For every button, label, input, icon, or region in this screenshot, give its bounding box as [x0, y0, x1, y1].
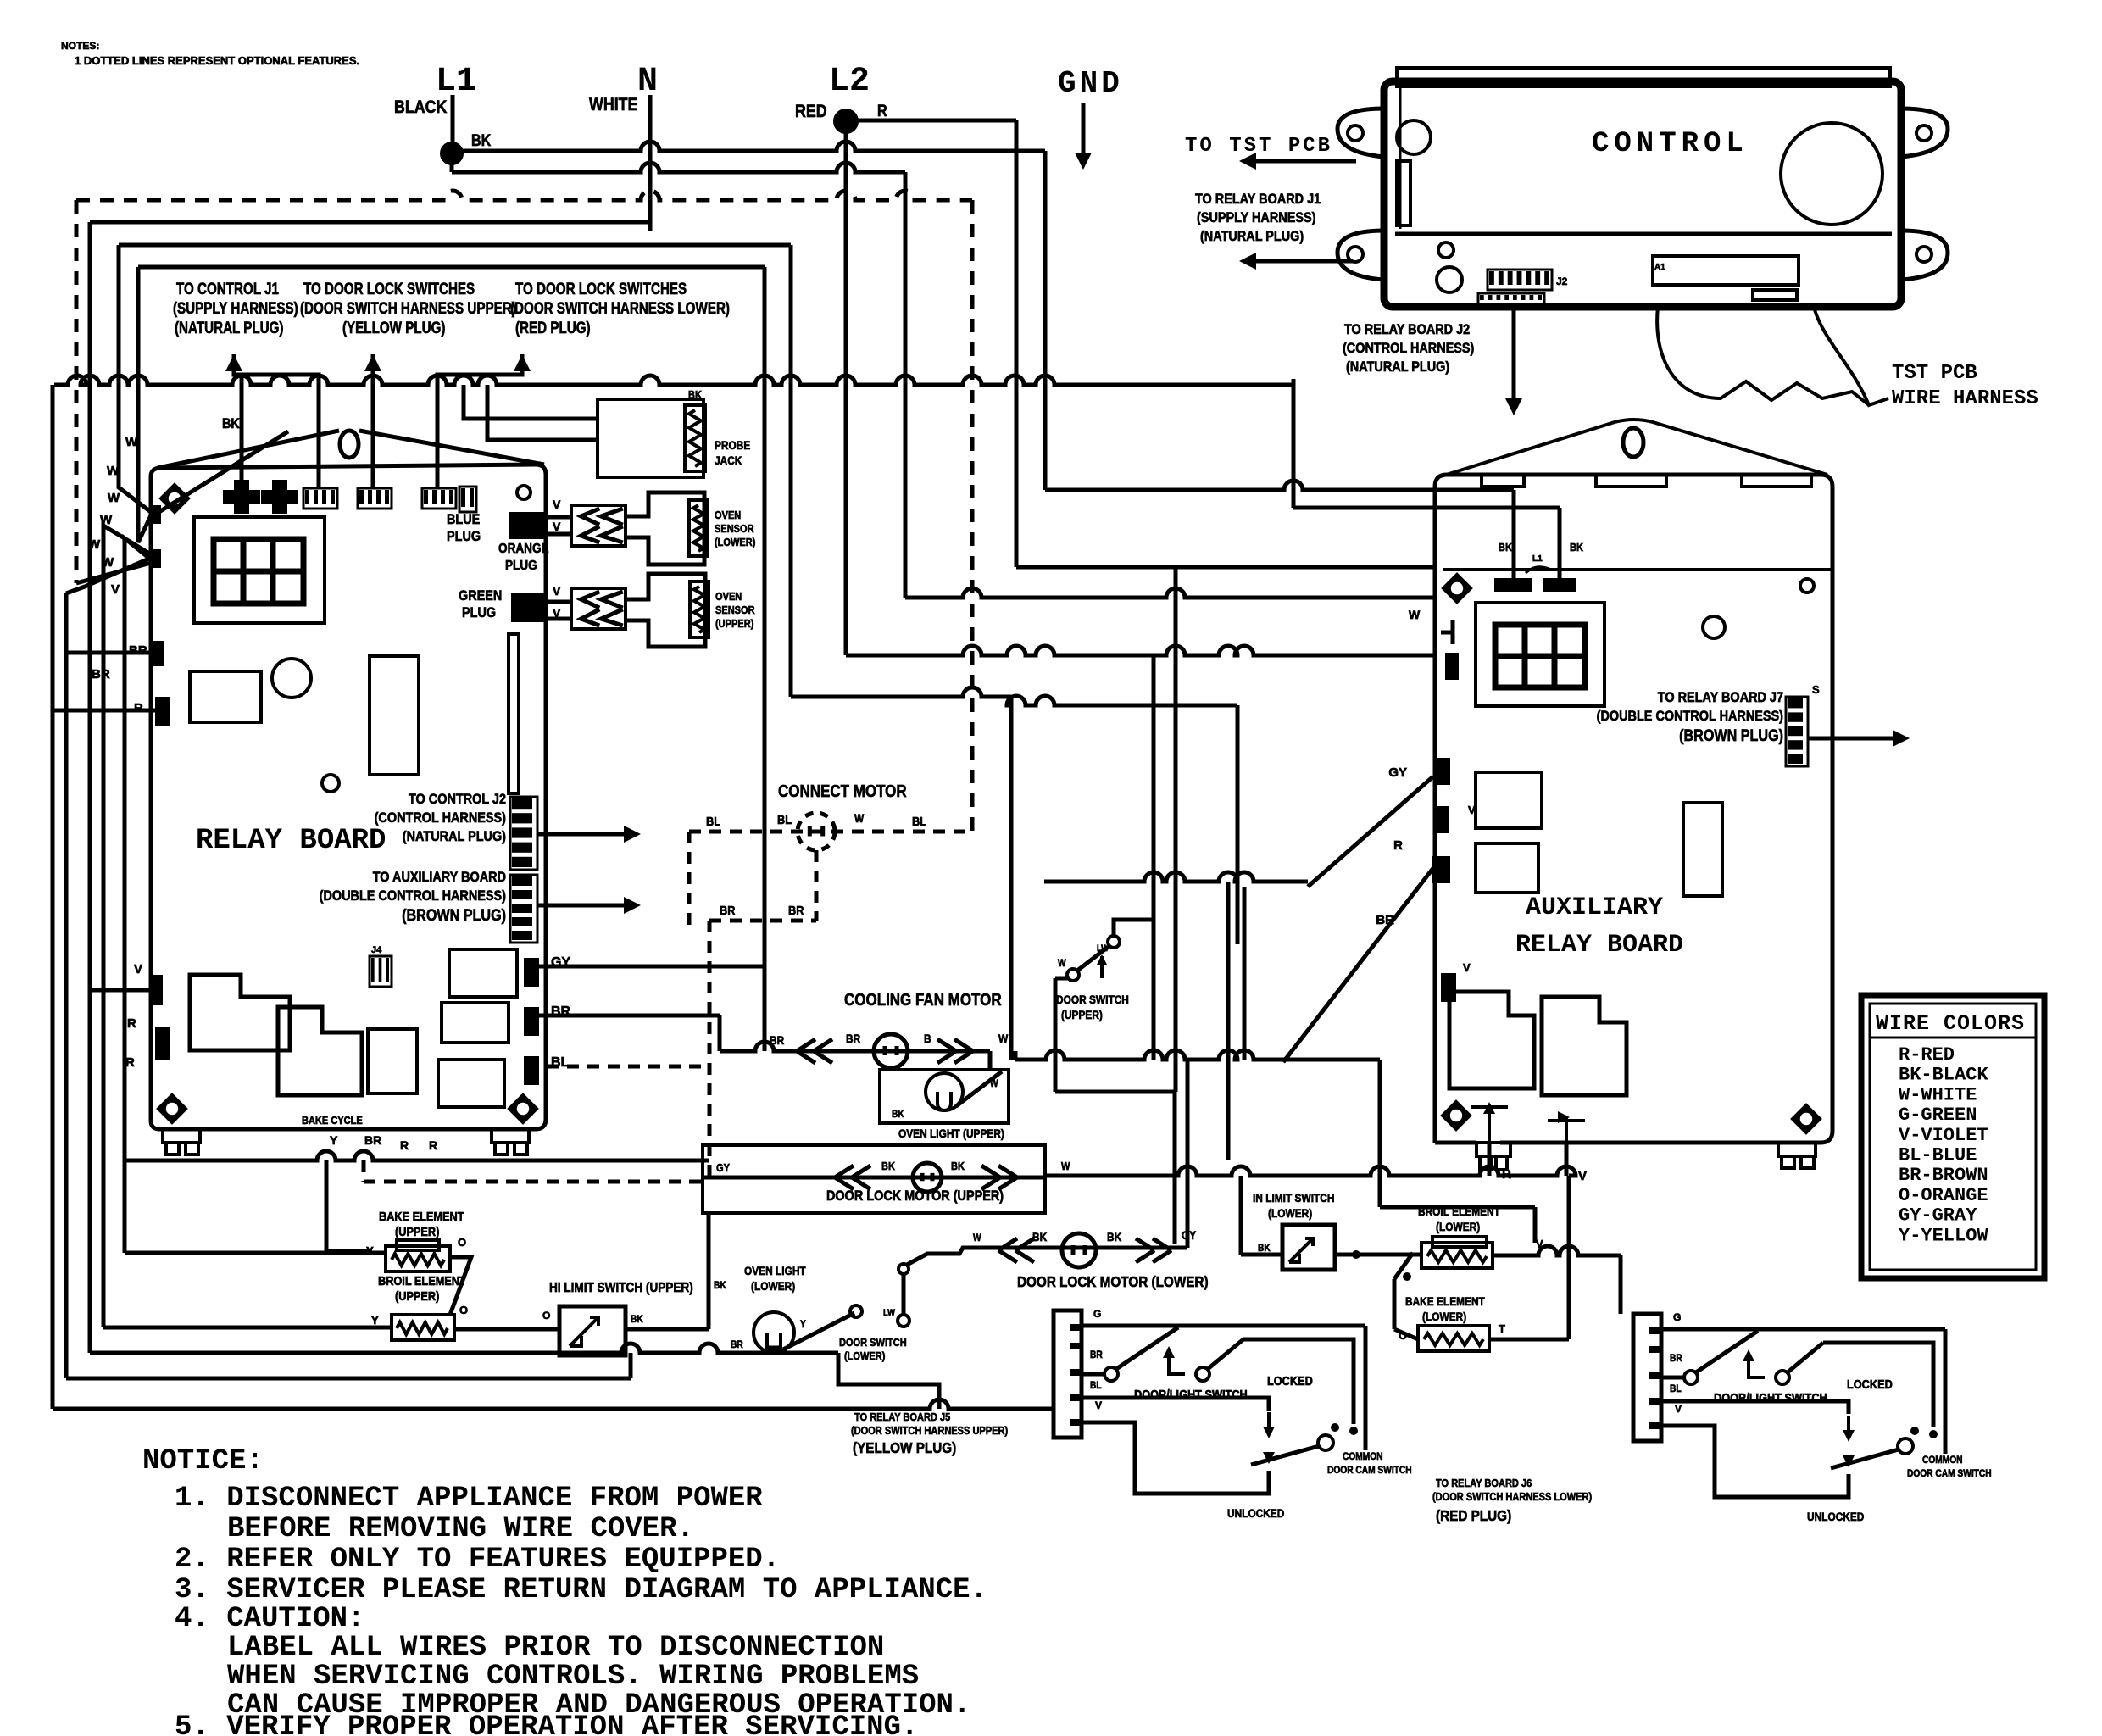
arrow J1 line	[1246, 259, 1353, 264]
left switch group pin	[1070, 1419, 1082, 1426]
arrow tst line	[1246, 159, 1356, 164]
bus y1040	[1044, 872, 1308, 882]
node L1 dot	[442, 143, 462, 164]
conn blue plug	[509, 512, 544, 539]
broil lower cap	[1432, 1237, 1487, 1247]
svg-text:(CONTROL HARNESS): (CONTROL HARNESS)	[1343, 341, 1474, 356]
conn V pad	[149, 975, 163, 1005]
wire x1912 drop	[1619, 1255, 1623, 1314]
right switch group wire top	[1661, 1327, 1945, 1332]
dlm upper arrows left	[835, 1166, 870, 1189]
bake element upper body	[386, 1246, 450, 1271]
GND lead	[1082, 103, 1086, 163]
aux corner bottom-left	[1435, 1141, 1476, 1145]
aux conn mid	[1433, 806, 1449, 833]
junction x744	[629, 1353, 633, 1378]
oven light upper filament	[937, 1092, 951, 1110]
svg-text:BK: BK	[1107, 1230, 1122, 1244]
conn W pads left	[149, 505, 161, 568]
svg-text:PLUG: PLUG	[505, 559, 537, 573]
wire R from L2 dot	[857, 119, 1016, 123]
dashed drop left	[687, 832, 692, 932]
bake upper cap	[397, 1240, 439, 1250]
arrow ctrl J2 head	[1505, 398, 1522, 415]
svg-text:(DOOR SWITCH HARNESS LOWER): (DOOR SWITCH HARNESS LOWER)	[1432, 1490, 1592, 1503]
probe jack resistor box	[685, 405, 705, 471]
right switch group down arrow	[1843, 1430, 1855, 1442]
cooling fan wire	[720, 1042, 990, 1051]
wire vertical x1449	[1226, 882, 1231, 1160]
svg-text:1. DISCONNECT APPLIANCE FROM P: 1. DISCONNECT APPLIANCE FROM POWER	[175, 1483, 763, 1515]
board trace bar	[509, 634, 519, 793]
left switch group pin	[1070, 1343, 1082, 1349]
broil element lower zigzag	[1427, 1250, 1487, 1262]
svg-text:BK: BK	[471, 131, 492, 150]
wire to hi-limit lower	[1241, 1253, 1282, 1257]
wire y669 to aux	[1016, 565, 1435, 570]
svg-text:BLUE: BLUE	[447, 512, 480, 527]
relay board outline	[151, 465, 546, 1129]
control ear bottom-left	[1337, 231, 1384, 280]
dashed stub x429	[362, 1160, 366, 1182]
aux hinge tab 1	[1482, 475, 1524, 487]
svg-text:(DOUBLE CONTROL HARNESS): (DOUBLE CONTROL HARNESS)	[320, 888, 506, 904]
wire vertical x1628	[1378, 1060, 1382, 1207]
svg-text:BK: BK	[688, 388, 702, 401]
aux hinge tab 2	[1596, 475, 1666, 487]
left switch group cam blade	[1251, 1446, 1319, 1465]
svg-text:W-WHITE: W-WHITE	[1899, 1084, 1977, 1105]
ear hole bottom-left	[1348, 247, 1363, 262]
svg-text:(UPPER): (UPPER)	[1061, 1008, 1103, 1021]
aux rect 1	[1476, 772, 1542, 828]
svg-text:L1: L1	[1532, 554, 1543, 564]
svg-text:HI LIMIT SWITCH (UPPER): HI LIMIT SWITCH (UPPER)	[549, 1281, 693, 1295]
arrow red plug	[514, 354, 531, 371]
right switch group up arrow	[1749, 1353, 1765, 1377]
dashed vertical x837	[708, 921, 712, 1182]
svg-text:TO AUXILIARY BOARD: TO AUXILIARY BOARD	[373, 870, 506, 885]
svg-text:TO RELAY BOARD J6: TO RELAY BOARD J6	[1436, 1477, 1532, 1489]
svg-text:V: V	[1095, 1399, 1102, 1411]
tst harness wave 1	[1657, 307, 1869, 405]
conn J4	[370, 956, 392, 987]
wire x385 to bake	[325, 1160, 329, 1251]
svg-text:V: V	[1463, 961, 1471, 974]
svg-text:(BROWN PLUG): (BROWN PLUG)	[1679, 726, 1783, 745]
aux BK pad 1	[1494, 578, 1532, 592]
control display window	[1653, 256, 1799, 285]
svg-text:RELAY BOARD: RELAY BOARD	[1515, 931, 1683, 960]
wire to probe jack 1	[464, 385, 598, 419]
aux foot wire V	[1565, 1143, 1569, 1176]
svg-text:3. SERVICER PLEASE RETURN DIAG: 3. SERVICER PLEASE RETURN DIAGRAM TO APP…	[175, 1574, 987, 1606]
bottom bus y1662	[53, 1399, 1055, 1409]
stub join	[1014, 1051, 1018, 1060]
aux relay block 2	[1542, 997, 1627, 1095]
wire vertical x1401	[1186, 1060, 1190, 1248]
left switch group down arrow line	[1267, 1412, 1271, 1427]
svg-text:GY-GRAY: GY-GRAY	[1899, 1205, 1977, 1227]
svg-text:LOCKED: LOCKED	[1847, 1377, 1893, 1391]
right switch group dot	[1929, 1430, 1938, 1438]
wire L1 lead	[451, 95, 455, 142]
svg-text:PLUG: PLUG	[447, 529, 481, 544]
left switch group down arrow 2	[1263, 1452, 1275, 1464]
svg-text:DOOR CAM SWITCH: DOOR CAM SWITCH	[1327, 1465, 1412, 1476]
left switch group bottom loop	[1082, 1422, 1269, 1494]
svg-text:V-VIOLET: V-VIOLET	[1899, 1125, 1988, 1146]
svg-text:DOOR SWITCH: DOOR SWITCH	[839, 1336, 907, 1349]
broil element lower body	[1421, 1243, 1493, 1268]
wire vertical x1387	[1174, 567, 1178, 1092]
svg-text:V: V	[553, 498, 561, 511]
fan wire drop	[988, 1051, 993, 1070]
bus y1387 right	[1045, 1166, 1576, 1176]
dsu wire right	[1114, 920, 1154, 936]
wire L1 dot drop	[450, 153, 454, 172]
svg-text:TO RELAY BOARD J5: TO RELAY BOARD J5	[854, 1410, 951, 1423]
door switch lower terminal 1	[850, 1305, 862, 1317]
svg-text:B: B	[924, 1032, 931, 1045]
arrow line aux	[537, 904, 632, 908]
svg-text:O: O	[459, 1304, 468, 1316]
svg-text:BL: BL	[1090, 1380, 1102, 1391]
wire BK to aux pad1	[1045, 481, 1514, 490]
dashed optional left	[75, 200, 79, 583]
svg-text:BK: BK	[881, 1160, 895, 1172]
dashed BR wire	[709, 919, 816, 923]
broil-bake diag	[1394, 1253, 1413, 1279]
svg-text:TO CONTROL J2: TO CONTROL J2	[409, 792, 506, 807]
aux diag wire R	[1283, 868, 1433, 1062]
cooling fan motor	[874, 1034, 908, 1068]
wire R vertical x1199	[1015, 120, 1019, 567]
dlm upper arrows right	[981, 1166, 1017, 1189]
svg-text:BR-BROWN: BR-BROWN	[1899, 1165, 1988, 1186]
right switch group blade 2	[1788, 1343, 1823, 1372]
aux L1 arc	[1526, 567, 1551, 573]
aux conn R	[1432, 856, 1450, 883]
relay board foot left	[163, 1129, 200, 1155]
left switch group cam terminal	[1318, 1435, 1333, 1450]
svg-text:RED: RED	[795, 102, 827, 122]
broil lower right stub	[1493, 1254, 1526, 1258]
relay module grid	[214, 539, 303, 604]
door switch upper arrow	[1100, 956, 1104, 978]
control slot	[1397, 161, 1410, 225]
svg-text:GY: GY	[1388, 765, 1407, 780]
aux mounting oval	[1623, 428, 1643, 457]
relay board tent right	[359, 431, 544, 465]
conn J2 relay	[510, 797, 537, 870]
bus drop x1526	[1292, 379, 1296, 508]
control box outline	[1384, 81, 1901, 307]
wire L2 vertical x998	[844, 121, 848, 655]
control ear top-right	[1901, 108, 1948, 157]
svg-text:G: G	[1673, 1311, 1681, 1323]
svg-text:BL-BLUE: BL-BLUE	[1899, 1145, 1977, 1166]
wire BK drop	[240, 375, 244, 488]
svg-text:BK: BK	[1032, 1230, 1048, 1244]
green plug chevrons	[571, 588, 626, 629]
oven sensor lower zigzag	[693, 505, 703, 551]
door switch lower terminal 2	[898, 1315, 909, 1327]
bottom bus y1369	[125, 1151, 709, 1160]
left switch group right vertical	[1364, 1326, 1368, 1450]
aux hinge tab 3	[1742, 475, 1811, 487]
svg-text:AUXILIARY: AUXILIARY	[1526, 893, 1663, 922]
svg-text:R: R	[125, 1055, 135, 1070]
svg-text:R: R	[1393, 838, 1403, 853]
wire vertical x1361	[1152, 655, 1156, 1060]
arrow2 stem	[371, 354, 375, 488]
svg-text:COMMON: COMMON	[1922, 1455, 1963, 1466]
wire colors title bg	[1870, 1004, 2036, 1038]
aux diag wire GY	[1308, 776, 1433, 887]
wire broil lower to right group	[1526, 1246, 1621, 1255]
aux screw bottom-right	[1793, 1105, 1820, 1132]
svg-text:TO RELAY BOARD J1: TO RELAY BOARD J1	[1195, 192, 1321, 207]
aux relay block 1	[1449, 992, 1534, 1088]
screw bottom-left relay board	[158, 1095, 186, 1122]
svg-text:CONTROL: CONTROL	[1592, 128, 1749, 160]
svg-text:GND: GND	[1058, 66, 1123, 101]
fan arrows right	[937, 1039, 973, 1063]
aux W connector	[1451, 620, 1455, 644]
svg-text:SENSOR: SENSOR	[715, 522, 754, 535]
wire vertical x1468	[1243, 887, 1247, 1060]
door lock motor lower	[1062, 1233, 1096, 1267]
wire green-chevron 1	[547, 600, 571, 604]
svg-text:(UPPER): (UPPER)	[715, 617, 753, 630]
wire N vertical	[648, 95, 653, 231]
wire W to aux board	[905, 588, 1435, 598]
svg-text:DOOR SWITCH: DOOR SWITCH	[1056, 993, 1129, 1006]
door switch lower blade	[783, 1313, 854, 1349]
dsu stub left	[1055, 976, 1070, 981]
svg-text:TO CONTROL J1: TO CONTROL J1	[176, 279, 279, 298]
tst harness wave 2	[1814, 307, 1888, 405]
svg-text:W: W	[854, 811, 865, 825]
broil element upper zigzag	[397, 1322, 448, 1334]
svg-text:V: V	[134, 962, 142, 976]
right switch group cam terminal	[1898, 1438, 1913, 1454]
wire BR drop	[718, 1015, 722, 1051]
svg-text:Y: Y	[800, 1319, 806, 1330]
svg-text:BL: BL	[777, 812, 792, 826]
wire blue-chevron 1	[544, 515, 571, 520]
aux conn J7	[1786, 697, 1808, 766]
svg-text:BR: BR	[788, 903, 804, 917]
svg-text:WIRE HARNESS: WIRE HARNESS	[1892, 387, 2038, 410]
svg-text:DOOR CAM SWITCH: DOOR CAM SWITCH	[1907, 1468, 1992, 1479]
wire hi-limit lower to broil	[1335, 1253, 1421, 1257]
wire hi-limit right	[626, 1327, 709, 1332]
ear hole top-right	[1916, 125, 1932, 141]
svg-text:(LOWER): (LOWER)	[1436, 1220, 1480, 1233]
board hole small	[322, 775, 339, 792]
svg-text:T: T	[1499, 1322, 1505, 1335]
left switch group wire mid	[1082, 1372, 1104, 1377]
aux foot right	[1778, 1143, 1816, 1168]
hi limit lower symbol	[1289, 1238, 1313, 1262]
bake upper feed	[125, 1251, 386, 1255]
svg-text:BR: BR	[364, 1133, 381, 1147]
svg-text:BK: BK	[714, 1280, 726, 1291]
fan arrows left	[797, 1039, 832, 1063]
wire blue-chevron 2	[544, 532, 571, 537]
aux module grid	[1495, 625, 1585, 687]
svg-text:Y: Y	[330, 1133, 338, 1147]
door switch upper terminal 2	[1108, 936, 1120, 948]
wire drop to aux pad2	[1558, 508, 1562, 578]
door switch upper terminal 1	[1067, 969, 1079, 981]
svg-text:TO RELAY BOARD J2: TO RELAY BOARD J2	[1344, 322, 1470, 337]
wire R to x62	[53, 709, 155, 713]
bake element upper zigzag	[392, 1254, 444, 1266]
svg-text:(DOOR SWITCH HARNESS UPPER): (DOOR SWITCH HARNESS UPPER)	[300, 298, 516, 317]
door lock motor upper enclosure	[703, 1145, 1045, 1213]
left switch group cam dot	[1331, 1423, 1339, 1432]
svg-text:V: V	[1578, 1169, 1587, 1183]
wire to door lock lower	[1055, 1092, 1175, 1244]
svg-text:Y: Y	[371, 1314, 379, 1327]
wire vertical x1851	[1567, 1176, 1571, 1339]
svg-text:L2: L2	[829, 63, 870, 101]
svg-text:(DOUBLE CONTROL HARNESS): (DOUBLE CONTROL HARNESS)	[1597, 709, 1783, 724]
relay block 4	[449, 949, 517, 997]
svg-text:BROIL ELEMENT: BROIL ELEMENT	[378, 1273, 466, 1288]
wire W fan 5 to dashed	[76, 563, 151, 583]
aux test point 2	[1548, 1116, 1585, 1143]
svg-text:BAKE CYCLE: BAKE CYCLE	[302, 1114, 363, 1127]
aux module frame	[1476, 603, 1604, 706]
broil element upper body	[392, 1315, 454, 1340]
right switch group connector strip	[1633, 1314, 1661, 1441]
left switch group terminal 1	[1104, 1367, 1118, 1381]
left switch group terminal 2	[1196, 1367, 1209, 1381]
svg-text:DOOR LOCK MOTOR (UPPER): DOOR LOCK MOTOR (UPPER)	[826, 1188, 1004, 1204]
dlm lower arrows right	[1136, 1238, 1171, 1262]
probe jack box	[598, 399, 703, 477]
aux tall rect	[1683, 803, 1722, 896]
svg-text:V: V	[1675, 1403, 1682, 1415]
conn BL	[524, 1056, 539, 1085]
svg-text:V: V	[111, 582, 120, 597]
conn BR	[524, 1007, 539, 1036]
svg-text:(DOOR SWITCH HARNESS LOWER): (DOOR SWITCH HARNESS LOWER)	[510, 298, 730, 317]
relay block 1	[190, 975, 290, 1050]
svg-text:CONNECT MOTOR: CONNECT MOTOR	[778, 782, 907, 801]
aux foot left	[1476, 1143, 1510, 1170]
arrow ctrl J2 line	[1512, 307, 1516, 405]
svg-text:J2: J2	[1556, 275, 1568, 287]
broil upper feed	[103, 1326, 392, 1330]
wire left bus y289	[119, 243, 791, 248]
svg-text:(YELLOW PLUG): (YELLOW PLUG)	[853, 1439, 956, 1456]
wire vertical x902	[763, 267, 767, 966]
left switch group dot	[1349, 1427, 1358, 1435]
oven light upper box	[880, 1070, 1009, 1123]
svg-text:O: O	[542, 1310, 550, 1321]
control inner circle left	[1397, 120, 1431, 154]
dashed optional top	[76, 191, 972, 200]
main bus y454	[54, 376, 1293, 385]
aux board left edge	[1433, 593, 1437, 1065]
svg-text:ORANGE: ORANGE	[498, 542, 549, 556]
svg-text:W: W	[990, 1078, 998, 1089]
door lock motor lower wire	[983, 1246, 1187, 1250]
svg-text:IN LIMIT SWITCH: IN LIMIT SWITCH	[1253, 1191, 1334, 1205]
right switch group wire 4	[1661, 1401, 1849, 1414]
wire W fan 3 broil feed	[103, 526, 151, 1327]
control ear bottom-right	[1901, 231, 1948, 280]
svg-text:(BROWN PLUG): (BROWN PLUG)	[402, 906, 506, 925]
control big circle right	[1781, 123, 1882, 225]
svg-text:V: V	[553, 584, 561, 598]
wire vertical x1193	[1009, 705, 1014, 1060]
wire BR exit	[539, 1014, 720, 1018]
svg-text:OVEN: OVEN	[715, 509, 741, 521]
wire broil to hi-limit	[454, 1327, 559, 1332]
oven light upper diag	[956, 1071, 1002, 1106]
aux conn V	[1441, 973, 1456, 1002]
svg-text:WHEN SERVICING CONTROLS. WIRIN: WHEN SERVICING CONTROLS. WIRING PROBLEMS	[227, 1661, 919, 1693]
wire W fan 2	[138, 267, 151, 542]
svg-text:W: W	[998, 1032, 1009, 1045]
aux foot wire R	[1488, 1143, 1492, 1176]
svg-text:Y: Y	[366, 1244, 374, 1257]
svg-text:OVEN LIGHT: OVEN LIGHT	[744, 1264, 806, 1277]
svg-text:LW: LW	[883, 1308, 895, 1318]
dashed BL wire from relay board	[547, 1065, 709, 1069]
svg-text:LW: LW	[1097, 943, 1109, 954]
door lock motor upper wire	[703, 1176, 1045, 1180]
door lock motor upper	[913, 1163, 942, 1192]
conn dark	[459, 487, 476, 512]
conn R pad2	[155, 1027, 170, 1060]
left switch group pin	[1070, 1369, 1082, 1376]
svg-text:BR: BR	[1090, 1349, 1103, 1360]
svg-text:OVEN: OVEN	[715, 590, 742, 603]
bake element lower zigzag	[1424, 1333, 1483, 1345]
svg-text:Y-YELLOW: Y-YELLOW	[1899, 1225, 1988, 1246]
svg-text:(LOWER): (LOWER)	[1268, 1206, 1312, 1220]
svg-text:TO DOOR LOCK SWITCHES: TO DOOR LOCK SWITCHES	[303, 279, 475, 298]
svg-text:BEFORE REMOVING WIRE COVER.: BEFORE REMOVING WIRE COVER.	[227, 1513, 694, 1545]
left bundle x106	[88, 222, 92, 1353]
right switch group pin	[1649, 1327, 1661, 1334]
svg-text:BL: BL	[706, 814, 720, 828]
aux conn GY	[1433, 758, 1450, 785]
wire BK L1 to x1233	[462, 142, 1045, 151]
right switch group pin	[1649, 1372, 1661, 1379]
svg-text:(DOOR SWITCH HARNESS UPPER): (DOOR SWITCH HARNESS UPPER)	[851, 1424, 1008, 1437]
svg-text:(UPPER): (UPPER)	[395, 1224, 439, 1238]
right switch group pin	[1649, 1346, 1661, 1353]
svg-text:(LOWER): (LOWER)	[751, 1279, 795, 1293]
dsl wire up	[902, 1273, 906, 1315]
wire V to bundle	[90, 988, 149, 993]
svg-text:BLACK: BLACK	[394, 97, 447, 118]
relay block 3	[368, 1029, 417, 1093]
relay block 2	[278, 1007, 362, 1095]
svg-text:OVEN LIGHT (UPPER): OVEN LIGHT (UPPER)	[898, 1127, 1004, 1140]
wire GY exit	[539, 965, 765, 969]
ic block	[190, 671, 261, 722]
svg-text:R-RED: R-RED	[1899, 1044, 1955, 1066]
